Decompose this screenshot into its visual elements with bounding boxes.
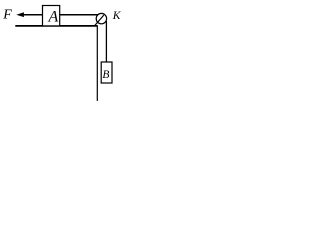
svg-text:B: B: [102, 69, 109, 81]
svg-text:F: F: [2, 8, 12, 23]
svg-text:A: A: [48, 9, 59, 26]
svg-text:K: K: [112, 10, 122, 22]
